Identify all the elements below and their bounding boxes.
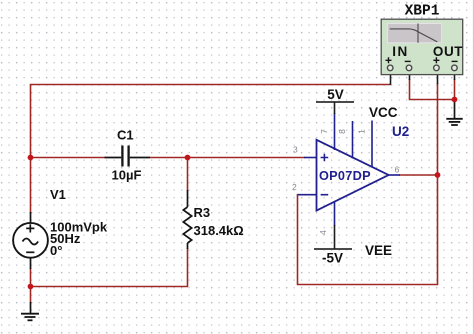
svg-text:0°: 0° [50, 243, 62, 258]
wire: op-amp output to node B [399, 174, 438, 176]
wire: V1 bottom to ground node [30, 268, 32, 287]
wire: R3 top to mid rail [187, 158, 189, 192]
pin 2 stub [298, 194, 317, 196]
svg-text:5V: 5V [327, 87, 344, 102]
svg-text:OP07DP: OP07DP [319, 169, 371, 183]
junction node B (output) [435, 172, 441, 178]
wire: Bode IN- down and right to OUT- net [410, 79, 455, 100]
wire: mid rail node A to C1 [31, 157, 106, 159]
+ input marker [321, 154, 329, 162]
ground (right, at Bode OUT-) [446, 100, 462, 126]
VCC 5V supply symbol [316, 102, 354, 114]
svg-text:XBP1: XBP1 [405, 4, 440, 20]
svg-text:2: 2 [292, 182, 297, 192]
terminal polarity marks [386, 57, 392, 63]
wire: Bode OUT+ down to node B [437, 83, 439, 175]
op-amp U2 OP07DP [298, 113, 400, 226]
junction node R3 top [185, 155, 191, 161]
terminal IN+ [387, 65, 393, 71]
capacitor C1 [105, 146, 151, 167]
junction node V1 ground [28, 284, 34, 290]
svg-text:VEE: VEE [365, 243, 392, 258]
svg-text:V1: V1 [50, 187, 66, 202]
svg-text:U2: U2 [392, 124, 409, 139]
svg-text:-5V: -5V [322, 250, 343, 265]
svg-text:VCC: VCC [369, 105, 398, 120]
svg-text:6: 6 [395, 165, 400, 175]
terminal OUT+ [434, 65, 440, 71]
wire: top rail from node A to Bode IN+ [31, 85, 391, 158]
- input marker [321, 194, 329, 196]
wire: ground node to ground symbol [30, 287, 32, 304]
svg-text:1: 1 [357, 129, 367, 134]
svg-text:8: 8 [337, 129, 347, 134]
wire: node A down to V1 [30, 158, 32, 214]
pin 8 lead (n/c) [352, 121, 354, 159]
pin 6 stub [389, 174, 400, 176]
Bode plotter terminal stubs (black) [390, 71, 392, 85]
wire: feedback loop pin2 to output node [298, 175, 438, 285]
window edge right [472, 0, 474, 334]
junction node C (OUT- / ground) [452, 97, 458, 103]
pin 4 lead [334, 201, 336, 226]
wire: C1 to R3 node to op-amp pin3 [150, 157, 306, 159]
svg-text:OUT: OUT [433, 44, 463, 59]
terminal OUT- [452, 65, 458, 71]
wire: Bode OUT- down to ground node C [454, 79, 456, 100]
wire: bottom rail to R3 [31, 248, 188, 287]
VEE -5V supply symbol [314, 225, 352, 249]
screen response curve [390, 29, 438, 42]
source V1 [13, 212, 48, 269]
svg-text:318.4kΩ: 318.4kΩ [194, 223, 244, 238]
pin 7 lead [334, 113, 336, 150]
resistor R3 [183, 190, 191, 249]
pin 3 stub [304, 157, 317, 159]
svg-text:7: 7 [319, 129, 329, 134]
terminal IN- [406, 65, 412, 71]
svg-text:R3: R3 [194, 205, 211, 220]
svg-text:C1: C1 [117, 128, 134, 143]
junction node A (rail/V1) [28, 155, 34, 161]
pin 1 lead (n/c) [371, 121, 373, 168]
svg-text:3: 3 [293, 145, 298, 155]
screen cursor line [417, 24, 419, 43]
svg-text:IN: IN [392, 44, 409, 59]
ground (left) [21, 302, 39, 320]
svg-text:10µF: 10µF [112, 168, 142, 183]
instrument XBP1 Bode plotter [381, 19, 463, 74]
svg-text:4: 4 [318, 230, 328, 235]
